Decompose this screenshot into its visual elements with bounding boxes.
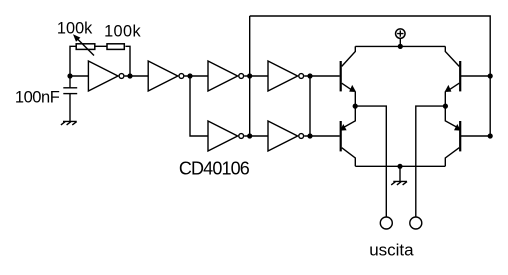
inverter U1F <box>268 121 304 151</box>
node supply rail <box>398 44 403 49</box>
capacitor C1 100nF <box>63 88 77 94</box>
node U1C output <box>247 73 252 78</box>
svg-text:uscita: uscita <box>369 241 414 260</box>
wire Q3 base to right rail <box>460 75 490 77</box>
node right rail top <box>488 73 493 78</box>
wire feedback left vertical <box>70 46 76 76</box>
inverter U1C <box>208 61 244 91</box>
wire input node to U1A <box>70 75 88 77</box>
node right rail bottom <box>488 133 493 138</box>
wire feedback right vertical <box>125 46 130 76</box>
transistor Q2 (PNP bottom-left) <box>340 106 355 166</box>
wire joined outputs U1C+U1D up to top rail <box>249 16 251 136</box>
wire output left <box>355 106 386 217</box>
node output right (Q3/Q4 emitters) <box>443 104 448 109</box>
node U1A output <box>127 73 132 78</box>
resistor R2 100k <box>107 44 124 50</box>
inverter U1D <box>208 121 244 151</box>
wire U1E output to Q1 base <box>304 75 339 77</box>
svg-text:100nF: 100nF <box>15 89 60 107</box>
ground (output stage) <box>391 181 407 185</box>
node U1D output <box>247 133 252 138</box>
node U1E output <box>307 73 312 78</box>
wire pot to resistor <box>95 45 106 47</box>
potentiometer R1 100k <box>73 34 95 55</box>
wire capacitor to ground <box>69 94 71 122</box>
node ground tap <box>397 164 402 169</box>
transistor Q3 (NPN top-right) <box>445 46 461 106</box>
svg-text:100k: 100k <box>57 20 93 38</box>
terminal output right <box>410 217 422 229</box>
wire U1B output to U1C <box>185 75 209 77</box>
ground (C1) <box>61 121 77 125</box>
terminal output left <box>380 217 392 229</box>
node U1B output <box>187 73 192 78</box>
svg-text:100k: 100k <box>104 23 141 41</box>
inverter U1E <box>268 61 304 91</box>
wire U1F output to Q2 base <box>304 135 339 137</box>
wire bottom rail (Q2/Q4 collectors) <box>355 165 445 167</box>
wire joining U1E and U1F outputs <box>309 76 311 136</box>
svg-text:CD40106: CD40106 <box>179 159 250 179</box>
transistor Q4 (PNP bottom-right) <box>445 106 460 166</box>
wire Q4 base to right rail <box>460 135 490 137</box>
wire U1C output to U1E input <box>244 75 268 77</box>
transistor Q1 (NPN top-left) <box>341 46 356 106</box>
wire U1A output to U1B <box>125 75 149 77</box>
power supply + terminal <box>396 29 406 47</box>
wire output right <box>416 106 446 217</box>
wire input node to capacitor <box>69 76 71 88</box>
node U1F output <box>307 133 312 138</box>
node input <box>67 73 72 78</box>
wire U1D output to U1F input <box>244 135 268 137</box>
wire ground stub <box>399 166 401 181</box>
inverter U1A <box>88 61 124 91</box>
wire positive supply rail <box>355 45 445 47</box>
inverter U1B <box>148 61 184 91</box>
node output left (Q1/Q2 emitters) <box>353 104 358 109</box>
wire top feedback rail <box>250 16 491 136</box>
wire U1B output down to U1D input <box>190 76 208 136</box>
